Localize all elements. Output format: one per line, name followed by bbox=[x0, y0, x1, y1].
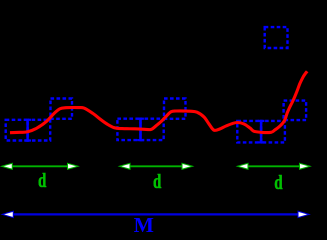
wire shaft M bbox=[11, 213, 300, 215]
box B6 (middle group, raised) bbox=[164, 99, 186, 119]
red fractal curve bbox=[10, 71, 307, 132]
box B2 (left group, lower-right) bbox=[28, 120, 51, 141]
box B5 (middle group, lower-right) bbox=[141, 119, 164, 140]
box B3 (left group, raised) bbox=[51, 99, 73, 119]
svg-text:d: d bbox=[274, 171, 282, 194]
wire cap top B1/B2 bbox=[24, 119, 31, 121]
box B7 (right group, lower-left) bbox=[237, 121, 261, 142]
wire shaft d2 bbox=[127, 165, 185, 167]
arrowhead d3 left bbox=[238, 163, 249, 169]
box B1 (left group, lower-left) bbox=[6, 120, 28, 141]
wire cap bottom B1/B2 bbox=[24, 139, 31, 141]
arrowhead d1 left bbox=[2, 163, 13, 169]
wire shared edge B4/B5 bbox=[139, 118, 141, 141]
svg-text:M: M bbox=[134, 213, 154, 237]
arrowhead M right bbox=[298, 211, 309, 217]
box B9 (right group, raised) bbox=[284, 101, 307, 121]
arrow d1 (green, left) bbox=[2, 163, 78, 169]
wire shared edge B7/B8 bbox=[260, 120, 262, 143]
wire cap top B7/B8 bbox=[258, 120, 265, 122]
arrowhead M left bbox=[2, 211, 13, 217]
wire shaft d3 bbox=[245, 165, 302, 167]
wire cap bottom B7/B8 bbox=[258, 141, 265, 143]
svg-text:d: d bbox=[153, 170, 161, 193]
wire cap top B4/B5 bbox=[137, 118, 144, 120]
arrowhead d3 right bbox=[300, 163, 311, 169]
arrowhead d2 left bbox=[120, 163, 131, 169]
arrow d2 (green, middle) bbox=[120, 163, 193, 169]
box B8 (right group, lower-right) bbox=[261, 121, 285, 142]
wire cap bottom B4/B5 bbox=[137, 139, 144, 141]
wire shaft d1 bbox=[10, 165, 70, 167]
box B4 (middle group, lower-left) bbox=[117, 119, 140, 140]
arrow M (blue, bottom) bbox=[2, 211, 309, 217]
arrowhead d1 right bbox=[68, 163, 79, 169]
svg-text:d: d bbox=[38, 169, 46, 192]
wire shared edge B1/B2 bbox=[26, 119, 28, 141]
box B0 (isolated top-right) bbox=[265, 27, 288, 48]
arrowhead d2 right bbox=[182, 163, 193, 169]
arrow d3 (green, right) bbox=[238, 163, 311, 169]
